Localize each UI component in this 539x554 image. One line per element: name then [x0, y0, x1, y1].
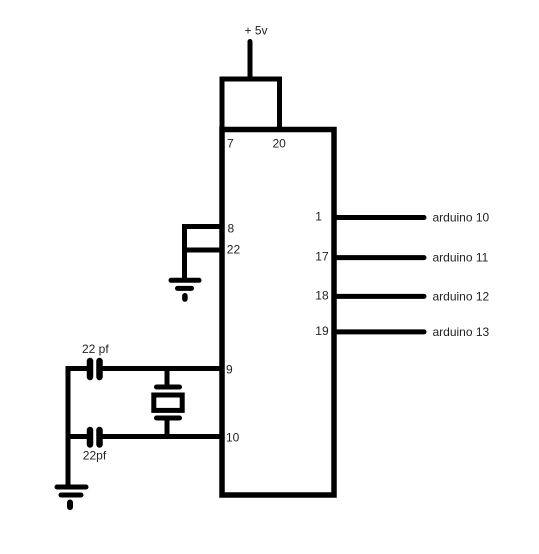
svg-text:19: 19	[315, 324, 329, 338]
svg-text:10: 10	[226, 431, 240, 445]
svg-text:22 pf: 22 pf	[82, 342, 109, 356]
svg-text:20: 20	[273, 137, 287, 151]
svg-text:+ 5v: + 5v	[245, 24, 268, 38]
svg-text:18: 18	[315, 288, 329, 302]
svg-text:8: 8	[228, 222, 235, 236]
svg-text:1: 1	[315, 210, 322, 224]
svg-text:arduino 11: arduino 11	[433, 251, 489, 265]
svg-text:arduino 10: arduino 10	[433, 211, 490, 225]
svg-text:9: 9	[226, 363, 233, 377]
svg-text:22: 22	[227, 243, 241, 257]
svg-text:17: 17	[315, 249, 329, 263]
svg-text:22pf: 22pf	[83, 449, 107, 463]
svg-text:arduino 13: arduino 13	[433, 325, 490, 339]
svg-text:arduino 12: arduino 12	[433, 290, 490, 304]
svg-text:7: 7	[227, 137, 234, 151]
